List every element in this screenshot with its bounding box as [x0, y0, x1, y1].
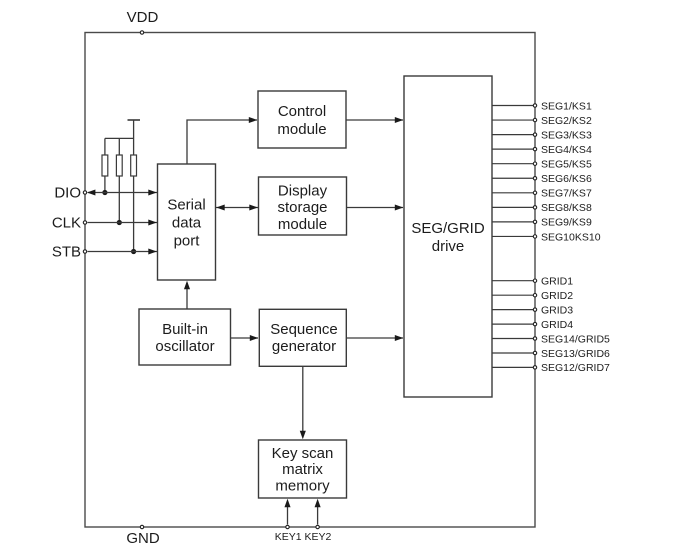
- resistor R1 (DIO pull-up): [102, 155, 108, 193]
- pin GRID1: [492, 276, 573, 288]
- pin DIO: [83, 191, 86, 194]
- label GND: [126, 530, 160, 547]
- svg-text:GND: GND: [126, 530, 160, 547]
- svg-text:SEG8/KS8: SEG8/KS8: [541, 202, 592, 214]
- wire serial data port to control module: [187, 117, 257, 164]
- pin SEG13/GRID6: [492, 348, 610, 360]
- svg-text:CLK: CLK: [52, 215, 81, 232]
- junction dot R2/CLK: [117, 220, 122, 225]
- svg-text:module: module: [277, 121, 326, 138]
- svg-text:SEG12/GRID7: SEG12/GRID7: [541, 362, 610, 374]
- pin SEG6/KS6: [492, 173, 592, 185]
- svg-text:oscillator: oscillator: [155, 338, 214, 355]
- pin VDD: [140, 31, 143, 34]
- pin SEG9/KS9: [492, 217, 592, 229]
- wire built-in oscillator to serial data port: [184, 281, 190, 309]
- pin SEG7/KS7: [492, 188, 592, 200]
- pin GND: [140, 525, 143, 528]
- chip boundary: [85, 33, 535, 528]
- pin CLK: [83, 221, 86, 224]
- svg-text:SEG2/KS2: SEG2/KS2: [541, 115, 592, 127]
- svg-text:SEG7/KS7: SEG7/KS7: [541, 188, 592, 200]
- svg-text:Sequence: Sequence: [270, 321, 338, 338]
- wire built-in oscillator to sequence generator: [231, 335, 259, 341]
- block control module: [258, 91, 346, 148]
- pin SEG1/KS1: [492, 100, 592, 112]
- svg-text:SEG3/KS3: SEG3/KS3: [541, 129, 592, 141]
- pin GRID4: [492, 319, 573, 331]
- junction dot R3/STB: [131, 249, 136, 254]
- svg-text:generator: generator: [272, 338, 336, 355]
- resistor R3 (STB pull-up): [131, 155, 137, 252]
- svg-text:GRID4: GRID4: [541, 319, 573, 331]
- svg-text:SEG1/KS1: SEG1/KS1: [541, 100, 592, 112]
- svg-text:SEG9/KS9: SEG9/KS9: [541, 217, 592, 229]
- svg-text:Control: Control: [278, 103, 326, 120]
- pin SEG12/GRID7: [492, 362, 610, 374]
- svg-text:SEG/GRID: SEG/GRID: [411, 220, 485, 237]
- pin SEG5/KS5: [492, 159, 592, 171]
- pin SEG10KS10: [492, 231, 601, 243]
- label STB: [52, 244, 81, 261]
- pull-up supply rail T-bar: [128, 120, 141, 155]
- svg-text:Display: Display: [278, 182, 328, 199]
- wire DIO (bidirectional): [87, 189, 158, 195]
- svg-text:SEG10KS10: SEG10KS10: [541, 231, 601, 243]
- svg-text:SEG14/GRID5: SEG14/GRID5: [541, 333, 610, 345]
- block serial data port: [158, 164, 216, 280]
- wire sequence generator to SEG/GRID drive: [346, 335, 403, 341]
- svg-text:SEG5/KS5: SEG5/KS5: [541, 159, 592, 171]
- label CLK: [52, 215, 81, 232]
- pin KEY1: [284, 499, 290, 529]
- wire STB: [88, 248, 158, 254]
- svg-text:GRID3: GRID3: [541, 304, 573, 316]
- label DIO: [54, 185, 81, 202]
- wire control module to SEG/GRID drive: [346, 117, 403, 123]
- wire CLK: [88, 219, 158, 225]
- svg-text:SEG4/KS4: SEG4/KS4: [541, 144, 592, 156]
- svg-text:storage: storage: [277, 199, 327, 216]
- block SEG/GRID drive: [404, 76, 492, 397]
- svg-text:VDD: VDD: [127, 9, 159, 26]
- svg-text:GRID2: GRID2: [541, 290, 573, 302]
- wire serial data port to display storage module (bidirectional): [216, 204, 258, 210]
- block sequence generator: [259, 309, 346, 366]
- svg-text:KEY1 KEY2: KEY1 KEY2: [275, 531, 332, 543]
- pin STB: [83, 250, 86, 253]
- junction dot R1/DIO: [102, 190, 107, 195]
- svg-text:GRID1: GRID1: [541, 276, 573, 288]
- svg-text:Built-in: Built-in: [162, 321, 208, 338]
- svg-text:matrix: matrix: [282, 461, 323, 478]
- svg-text:SEG13/GRID6: SEG13/GRID6: [541, 348, 610, 360]
- rail connecting bar: [105, 138, 134, 155]
- svg-text:drive: drive: [432, 238, 465, 255]
- svg-text:STB: STB: [52, 244, 81, 261]
- svg-text:Key scan: Key scan: [272, 445, 334, 462]
- block display storage module: [259, 177, 347, 235]
- svg-text:DIO: DIO: [54, 185, 81, 202]
- pin SEG14/GRID5: [492, 333, 610, 345]
- pin GRID2: [492, 290, 573, 302]
- pin SEG2/KS2: [492, 115, 592, 127]
- pin SEG3/KS3: [492, 129, 592, 141]
- svg-text:module: module: [278, 216, 327, 233]
- pin GRID3: [492, 304, 573, 316]
- wire sequence generator to key scan matrix memory: [300, 366, 306, 439]
- block key scan matrix memory: [259, 440, 347, 498]
- pin SEG8/KS8: [492, 202, 592, 214]
- label KEY1 KEY2: [275, 531, 332, 543]
- svg-text:memory: memory: [275, 477, 330, 494]
- pin KEY2: [315, 499, 321, 529]
- label VDD: [127, 9, 159, 26]
- wire display storage module to SEG/GRID drive: [347, 204, 404, 210]
- svg-text:Serial: Serial: [167, 197, 205, 214]
- block built-in oscillator: [139, 309, 231, 365]
- svg-text:port: port: [174, 233, 201, 250]
- pin SEG4/KS4: [492, 144, 592, 156]
- svg-text:SEG6/KS6: SEG6/KS6: [541, 173, 592, 185]
- svg-text:data: data: [172, 215, 202, 232]
- resistor R2 (CLK pull-up): [116, 155, 122, 223]
